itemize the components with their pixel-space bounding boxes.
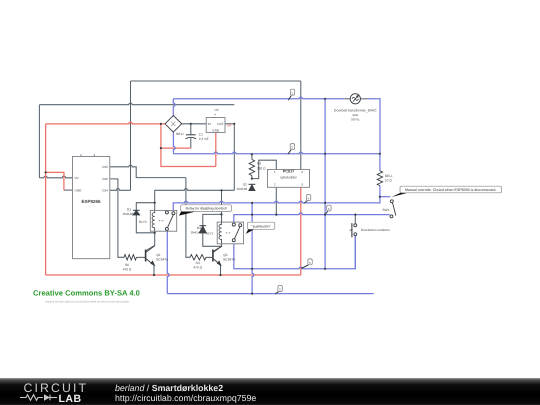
svg-text:2.2 mF: 2.2 mF xyxy=(199,137,209,141)
svg-text:4: 4 xyxy=(301,170,303,174)
svg-text:D4: D4 xyxy=(197,226,201,230)
svg-text:IN: IN xyxy=(208,122,211,126)
svg-text:D14: D14 xyxy=(102,189,108,193)
svg-text:1N4148: 1N4148 xyxy=(190,231,201,235)
svg-text:Q1: Q1 xyxy=(156,253,160,257)
svg-text:10 Ω: 10 Ω xyxy=(385,178,392,182)
svg-text:"pushbutton": "pushbutton" xyxy=(252,224,272,228)
svg-text:Doorbutton outdoors: Doorbutton outdoors xyxy=(361,228,390,232)
svg-text:D15: D15 xyxy=(102,165,108,169)
svg-text:R3: R3 xyxy=(257,162,261,166)
svg-text:BR1+: BR1+ xyxy=(176,132,184,136)
svg-text:OUT: OUT xyxy=(217,122,224,126)
svg-text:SW1: SW1 xyxy=(382,208,389,212)
svg-text:sine: sine xyxy=(352,113,358,117)
svg-text:R4: R4 xyxy=(196,261,200,265)
svg-text:Relay for disabling doorbell: Relay for disabling doorbell xyxy=(186,207,227,211)
svg-text:Q2: Q2 xyxy=(223,253,227,257)
svg-text:ESP8266: ESP8266 xyxy=(81,199,101,204)
svg-text:1N4148: 1N4148 xyxy=(236,187,247,191)
svg-text:330 Ω: 330 Ω xyxy=(257,166,266,170)
svg-text:BC547A: BC547A xyxy=(223,258,236,262)
svg-text:PC817: PC817 xyxy=(283,170,295,174)
svg-text:U2: U2 xyxy=(215,108,219,112)
svg-text:470 Ω: 470 Ω xyxy=(123,267,132,271)
svg-text:3: 3 xyxy=(301,182,303,186)
svg-text:RLY1: RLY1 xyxy=(206,231,214,235)
svg-text:470 Ω: 470 Ω xyxy=(193,265,202,269)
svg-text:D3: D3 xyxy=(127,208,131,212)
svg-text:Creative Commons BY-SA 4.0: Creative Commons BY-SA 4.0 xyxy=(33,289,140,298)
svg-text:BELL: BELL xyxy=(385,174,393,178)
svg-text:GND: GND xyxy=(212,128,220,132)
svg-text:C1: C1 xyxy=(199,132,203,136)
svg-text:D16: D16 xyxy=(102,177,108,181)
svg-text:1: 1 xyxy=(274,170,276,174)
svg-text:5V: 5V xyxy=(227,123,232,127)
svg-text:2: 2 xyxy=(274,182,276,186)
svg-text:BC547A: BC547A xyxy=(156,258,169,262)
svg-text:GND: GND xyxy=(75,188,83,192)
svg-text:1N4148: 1N4148 xyxy=(122,212,133,216)
svg-text:RLY2: RLY2 xyxy=(139,220,147,224)
svg-text:50 Hz: 50 Hz xyxy=(351,117,360,121)
svg-text:Inspired by https://github.com: Inspired by https://github.com/SmartDoor… xyxy=(45,301,129,304)
svg-text:Manual override. Closed when E: Manual override. Closed when ESP8266 is … xyxy=(405,188,497,192)
svg-text:http://circuitlab.com/cbrauxmp: http://circuitlab.com/cbrauxmpq759e xyxy=(115,393,256,403)
svg-text:Doorbell transformer_8VAC: Doorbell transformer_8VAC xyxy=(334,109,377,113)
svg-text:optokobler: optokobler xyxy=(280,176,298,180)
svg-text:LAB: LAB xyxy=(59,393,82,405)
svg-text:R6: R6 xyxy=(125,263,129,267)
svg-text:berland / Smartdørklokke2: berland / Smartdørklokke2 xyxy=(115,383,223,393)
svg-text:Vin: Vin xyxy=(75,176,80,180)
